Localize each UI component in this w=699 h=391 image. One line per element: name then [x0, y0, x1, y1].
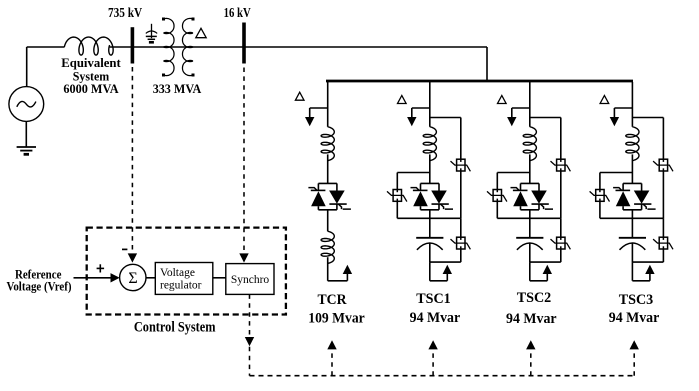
svg-text:TSC2: TSC2: [517, 290, 552, 306]
svg-text:94 Mvar: 94 Mvar: [506, 311, 557, 327]
svg-text:94 Mvar: 94 Mvar: [609, 310, 660, 326]
svg-text:Σ: Σ: [128, 270, 137, 287]
svg-text:TSC3: TSC3: [619, 292, 654, 308]
svg-text:6000 MVA: 6000 MVA: [63, 81, 119, 96]
svg-text:TCR: TCR: [318, 292, 347, 308]
svg-text:735 kV: 735 kV: [108, 6, 142, 21]
svg-text:16 kV: 16 kV: [224, 6, 251, 21]
svg-text:Control System: Control System: [134, 320, 216, 336]
svg-text:Voltage: Voltage: [160, 267, 195, 279]
svg-text:TSC1: TSC1: [416, 291, 451, 307]
svg-text:94 Mvar: 94 Mvar: [410, 310, 461, 326]
svg-text:109 Mvar: 109 Mvar: [308, 310, 365, 326]
svg-text:regulator: regulator: [160, 279, 202, 291]
svg-text:Synchro: Synchro: [231, 274, 270, 286]
svg-text:333 MVA: 333 MVA: [153, 81, 202, 96]
svg-text:Voltage (Vref): Voltage (Vref): [6, 279, 71, 294]
